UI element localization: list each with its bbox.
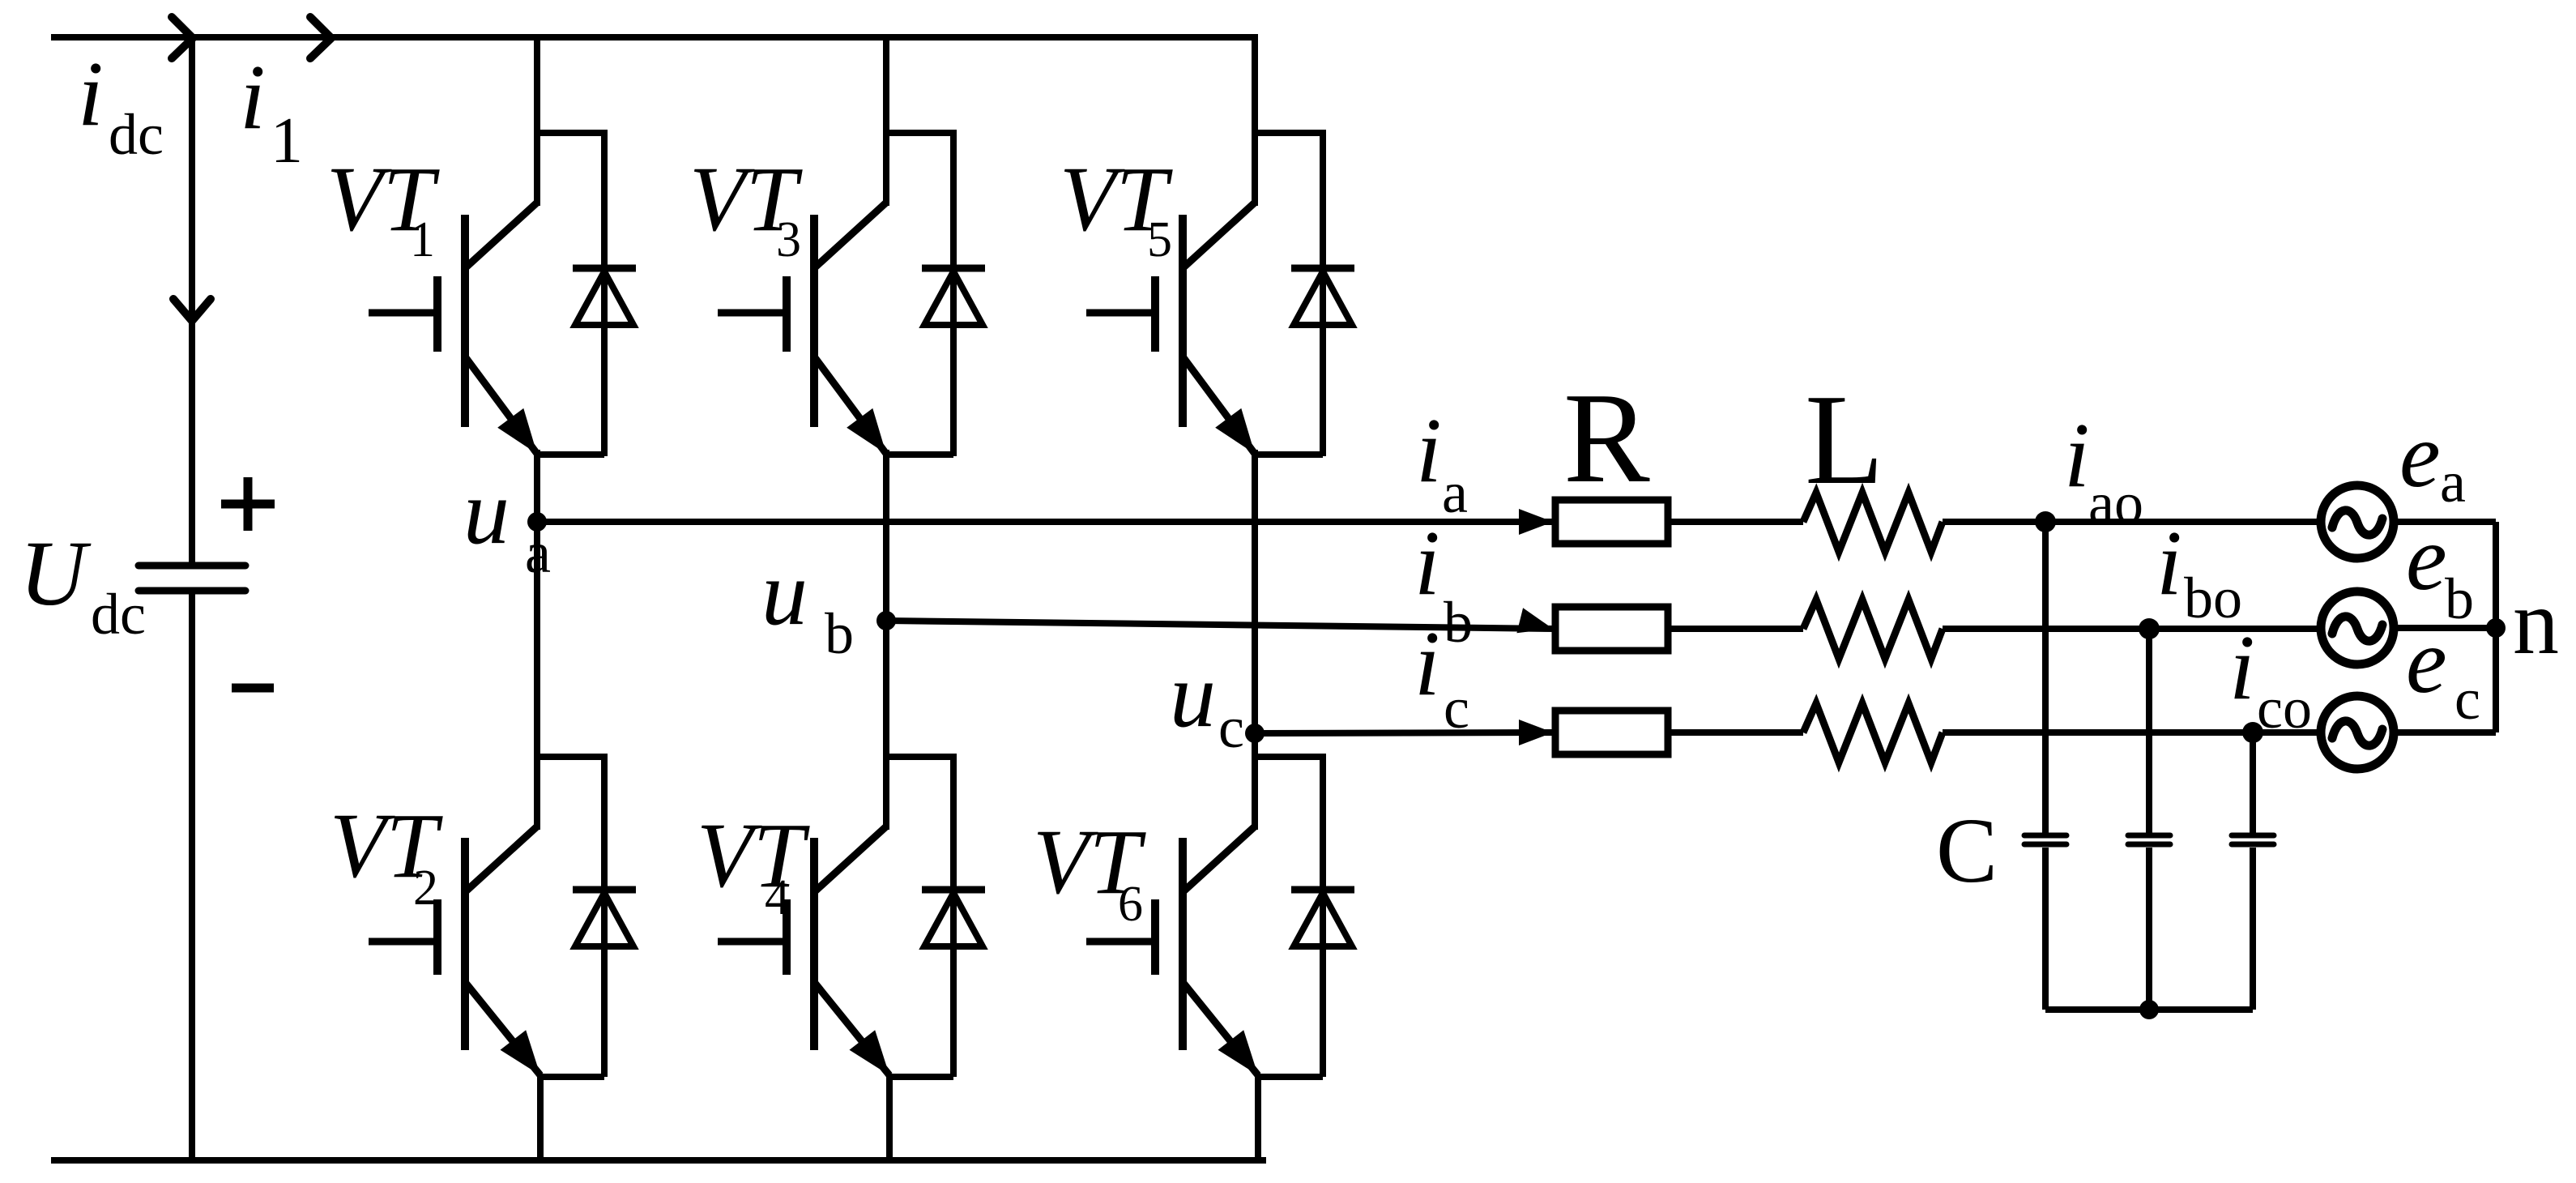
svg-text:u: u <box>463 460 510 563</box>
wire node u_b to VT4 <box>883 621 889 830</box>
svg-text:a: a <box>2440 450 2466 515</box>
svg-text:i: i <box>1414 612 1440 715</box>
capacitor C phase b <box>2128 833 2170 839</box>
plus sign <box>221 477 275 531</box>
node i_bo junction dot <box>2139 618 2160 639</box>
node u_a junction dot <box>527 512 547 532</box>
inductor L phase c <box>1803 703 1943 762</box>
wire node i_bo down to capacitor <box>2146 629 2152 833</box>
transistor VT2 (IGBT) <box>465 826 537 892</box>
wire R to L phase b <box>1668 626 1803 632</box>
node i_co junction dot <box>2242 722 2263 743</box>
wire jog from diode D4 bottom <box>889 1074 953 1080</box>
svg-text:2: 2 <box>413 861 438 916</box>
transistor VT4 (IGBT) <box>814 826 886 892</box>
wire node u_a to VT2 <box>534 522 540 830</box>
svg-text:u: u <box>1170 643 1216 746</box>
svg-text:i: i <box>2064 404 2090 506</box>
svg-text:i: i <box>240 45 266 148</box>
wire DC link upper <box>189 37 195 566</box>
svg-text:3: 3 <box>776 212 801 267</box>
svg-text:a: a <box>1442 460 1468 525</box>
svg-text:6: 6 <box>1118 877 1143 932</box>
wire emitter VT1 to node u_a <box>534 450 540 522</box>
wire collector VT3 <box>883 37 889 206</box>
svg-text:b: b <box>1444 590 1473 655</box>
svg-text:c: c <box>1218 695 1244 760</box>
AC source e_b <box>2321 591 2394 664</box>
wire VT2 emitter to bottom bus <box>537 1075 544 1160</box>
svg-text:1: 1 <box>271 105 303 177</box>
capacitor C phase a <box>2024 833 2066 839</box>
svg-text:5: 5 <box>1147 212 1172 267</box>
wire DC link lower <box>189 591 195 1160</box>
wire jog to diode D1 top <box>534 130 604 136</box>
svg-text:e: e <box>2406 609 2447 712</box>
wire e_c to node n rail <box>2394 729 2496 736</box>
diode D3 <box>922 265 985 272</box>
capacitor C phase c <box>2232 833 2274 839</box>
wire capacitor c to common rail <box>2250 848 2256 1010</box>
svg-text:e: e <box>2406 506 2447 609</box>
wire e_b to node n rail <box>2394 625 2496 631</box>
wire emitter VT5 to node u_c <box>1252 450 1258 733</box>
transistor VT1 (IGBT) <box>465 203 537 268</box>
diode D3 branch wire <box>950 130 957 456</box>
svg-text:e: e <box>2399 404 2441 506</box>
wire emitter VT3 to node u_b <box>883 450 889 621</box>
svg-text:dc: dc <box>91 582 146 647</box>
diode D2 <box>573 886 636 894</box>
diode D5 branch wire <box>1320 130 1326 456</box>
node u_c junction dot <box>1245 724 1265 743</box>
wire node i_ao down to capacitor <box>2042 522 2049 833</box>
arrow on DC link (downward) <box>173 299 211 321</box>
svg-text:co: co <box>2257 676 2312 741</box>
wire jog from diode D6 bottom <box>1258 1074 1323 1080</box>
diode D4 branch wire <box>950 754 957 1077</box>
node n junction dot <box>2486 618 2506 638</box>
svg-text:VT: VT <box>697 804 811 907</box>
diode D5 <box>1291 265 1354 272</box>
resistor R phase c <box>1555 711 1668 754</box>
svg-text:i: i <box>2156 511 2182 614</box>
svg-text:1: 1 <box>410 212 435 267</box>
svg-text:4: 4 <box>765 870 790 925</box>
svg-text:a: a <box>525 520 551 585</box>
wire jog from diode D5 bottom <box>1255 451 1323 458</box>
diode D6 branch wire <box>1320 754 1326 1077</box>
wire collector VT5 <box>1252 37 1258 206</box>
capacitor U_dc lower plate <box>139 587 245 595</box>
svg-text:C: C <box>1936 799 1998 902</box>
wire top DC bus <box>51 34 1258 41</box>
wire R to L phase c <box>1668 729 1803 736</box>
wire L to source e_a <box>1943 519 2321 525</box>
wire jog to diode D4 top <box>883 754 953 760</box>
svg-text:dc: dc <box>109 102 164 167</box>
diode D6 <box>1291 886 1354 894</box>
resistor R phase b <box>1555 607 1668 651</box>
wire jog to diode D3 top <box>883 130 953 136</box>
wire phase c from u_c to R <box>1255 732 1555 733</box>
wire node u_c to VT6 <box>1252 733 1258 830</box>
svg-text:i: i <box>2229 616 2255 719</box>
wire capacitor common rail <box>2045 1006 2253 1013</box>
wire jog to diode D2 top <box>534 754 604 760</box>
arrow i_c <box>1519 720 1553 745</box>
wire phase b from u_b to R <box>886 621 1555 629</box>
wire R to L phase a <box>1668 519 1803 525</box>
wire VT4 emitter to bottom bus <box>886 1075 893 1160</box>
node i_ao junction dot <box>2035 511 2056 532</box>
wire jog from diode D2 bottom <box>540 1074 604 1080</box>
wire jog from diode D1 bottom <box>537 451 604 458</box>
wire VT6 emitter to bottom bus <box>1255 1075 1261 1160</box>
wire collector VT1 <box>534 37 540 206</box>
svg-text:i: i <box>1414 511 1440 614</box>
capacitor U_dc upper plate <box>139 562 245 570</box>
svg-text:R: R <box>1563 365 1650 510</box>
AC source e_a <box>2321 485 2394 558</box>
svg-text:n: n <box>2513 570 2559 673</box>
diode D1 branch wire <box>601 130 608 456</box>
wire jog from diode D3 bottom <box>886 451 953 458</box>
wire capacitor a to common rail <box>2042 848 2049 1010</box>
wire neutral rail vertical <box>2493 522 2499 732</box>
transistor VT6 (IGBT) <box>1183 826 1255 892</box>
wire node i_co down to capacitor <box>2250 732 2256 833</box>
arrow i_a <box>1519 509 1553 535</box>
svg-text:ao: ao <box>2088 471 2143 536</box>
svg-text:b: b <box>825 601 854 666</box>
arrow i_dc on top bus <box>172 17 193 58</box>
diode D1 <box>573 265 636 272</box>
svg-text:c: c <box>2454 667 2480 732</box>
svg-text:c: c <box>1444 676 1469 741</box>
svg-text:u: u <box>761 541 808 644</box>
diode D4 <box>922 886 985 894</box>
svg-text:i: i <box>78 42 104 145</box>
wire L to source e_b <box>1943 626 2321 632</box>
wire jog to diode D5 top <box>1252 130 1323 136</box>
minus sign <box>232 684 274 693</box>
wire phase a from u_a to R <box>537 519 1555 525</box>
transistor VT5 (IGBT) <box>1183 203 1255 268</box>
svg-text:U: U <box>19 522 92 625</box>
wire jog to diode D6 top <box>1252 754 1323 760</box>
node u_b junction dot <box>876 611 896 630</box>
arrow i_b <box>1516 608 1553 633</box>
inductor L phase a <box>1803 493 1943 552</box>
svg-text:L: L <box>1805 367 1884 511</box>
wire capacitor b to common rail <box>2146 848 2152 1010</box>
diode D2 branch wire <box>601 754 608 1077</box>
inductor L phase b <box>1803 600 1943 659</box>
wire bottom DC bus <box>51 1157 1266 1164</box>
transistor VT3 (IGBT) <box>814 203 886 268</box>
wire e_a to node n rail <box>2394 519 2496 525</box>
svg-text:i: i <box>1416 399 1442 502</box>
AC source e_c <box>2321 696 2394 769</box>
arrow i_1 on top bus <box>310 17 331 58</box>
svg-text:b: b <box>2445 566 2474 631</box>
wire L to source e_c <box>1943 729 2321 736</box>
resistor R phase a <box>1555 500 1668 544</box>
node capacitor rail junction dot <box>2139 1000 2159 1019</box>
